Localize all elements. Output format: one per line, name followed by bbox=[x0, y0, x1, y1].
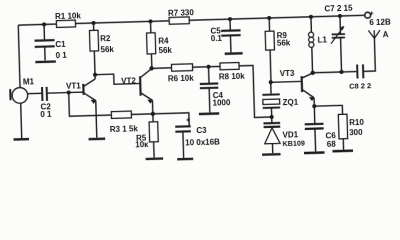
svg-text:R8 10k: R8 10k bbox=[219, 72, 246, 82]
svg-text:1000: 1000 bbox=[212, 98, 231, 108]
transistor VT1 bbox=[82, 84, 85, 95]
wire C5 top lead bbox=[229, 19, 231, 30]
capacitor C8 bbox=[356, 65, 358, 79]
svg-text:R4: R4 bbox=[158, 36, 169, 45]
svg-text:56k: 56k bbox=[100, 45, 114, 54]
svg-text:R1 10k: R1 10k bbox=[55, 11, 82, 21]
wire R9 top lead bbox=[268, 18, 270, 31]
wire node to ZQ1 bbox=[270, 82, 272, 93]
svg-text:56k: 56k bbox=[277, 39, 291, 48]
ground under C4 bbox=[199, 112, 219, 115]
resistor R1 bbox=[56, 20, 75, 27]
wire tank node to C8 bbox=[342, 71, 357, 73]
wire VT3 emitter down to node bbox=[313, 98, 315, 106]
wire node to C3 corner bbox=[153, 113, 189, 128]
wire R9 bottom to base node bbox=[269, 50, 272, 82]
wire R8 right corner down to varicap node row bbox=[239, 65, 272, 118]
svg-text:KB109: KB109 bbox=[282, 138, 305, 148]
svg-text:C1: C1 bbox=[55, 40, 66, 49]
capacitor C1 bbox=[35, 39, 55, 42]
wire top rail R7 to terminal bbox=[189, 15, 365, 20]
svg-text:R2: R2 bbox=[100, 34, 111, 43]
resistor R10 bbox=[338, 114, 347, 139]
wire M1 to C2 bbox=[27, 92, 42, 94]
svg-text:6 12В: 6 12В bbox=[369, 18, 391, 28]
wire C1 to ground bbox=[44, 47, 46, 61]
wire base node down to R3 row bbox=[69, 91, 112, 116]
wire VT2 emitter down to node bbox=[151, 100, 153, 113]
terminal +6..12V bbox=[365, 12, 371, 18]
wire ZQ1 to node bbox=[270, 108, 272, 117]
ground under R5 bbox=[146, 157, 163, 160]
svg-text:0.1: 0.1 bbox=[211, 34, 223, 43]
resistor R9 bbox=[265, 31, 274, 50]
wire R10 to ground bbox=[342, 139, 344, 150]
capacitor C4 bbox=[200, 82, 218, 85]
svg-text:+: + bbox=[186, 117, 190, 124]
wire VT3 emitter node to R10 bbox=[314, 105, 342, 115]
svg-text:R3 1 5k: R3 1 5k bbox=[110, 124, 139, 134]
wire VT1 emitter to ground bbox=[96, 101, 97, 138]
wire L1 bottom to VT3 collector node bbox=[311, 47, 314, 72]
ground under VT1 bbox=[89, 137, 106, 140]
svg-text:10 0х16В: 10 0х16В bbox=[185, 137, 220, 147]
svg-text:VT2: VT2 bbox=[121, 76, 136, 85]
resistor R5 bbox=[149, 122, 158, 142]
wire R6 to R8 node bbox=[193, 65, 220, 68]
wire left vertical from rail to M1 bbox=[18, 25, 20, 88]
wire M1 bottom to ground bbox=[20, 103, 23, 138]
svg-text:M1: M1 bbox=[23, 77, 35, 86]
wire C7 top lead bbox=[339, 16, 342, 34]
svg-text:C7 2 15: C7 2 15 bbox=[324, 3, 353, 13]
wire node down to VD1 bbox=[271, 117, 273, 123]
svg-text:10к: 10к bbox=[135, 140, 149, 149]
capacitor C2 bbox=[41, 87, 43, 101]
wire top rail R1 to R7 bbox=[75, 21, 169, 24]
resistor R7 bbox=[169, 17, 189, 24]
svg-text:C8 2 2: C8 2 2 bbox=[349, 81, 371, 91]
svg-text:+: + bbox=[370, 11, 374, 18]
svg-text:300: 300 bbox=[349, 128, 363, 137]
svg-text:0 1: 0 1 bbox=[40, 110, 52, 119]
transistor VT3 bbox=[301, 76, 304, 92]
svg-text:VT1: VT1 bbox=[66, 81, 81, 90]
svg-text:0 1: 0 1 bbox=[56, 51, 68, 60]
wire R3 to VT2 emitter node bbox=[131, 113, 152, 116]
wire R4 top lead bbox=[150, 21, 152, 32]
wire R5 to ground bbox=[153, 142, 155, 158]
capacitor C5 bbox=[221, 29, 240, 32]
resistor R3 bbox=[111, 111, 131, 118]
wire L1 top lead bbox=[310, 17, 312, 32]
svg-text:R7 330: R7 330 bbox=[168, 8, 195, 18]
ground under R10 bbox=[332, 149, 352, 152]
varicap VD1 bbox=[263, 122, 280, 125]
wire R2 top lead bbox=[93, 23, 95, 30]
ground under M1 bbox=[14, 138, 29, 141]
svg-text:68: 68 bbox=[327, 140, 337, 149]
capacitor C3 bbox=[175, 125, 190, 128]
wire VD1 to ground bbox=[271, 144, 273, 154]
resistor R8 bbox=[220, 62, 239, 69]
resistor R2 bbox=[89, 30, 98, 51]
antenna A bbox=[373, 30, 375, 38]
svg-text:C3: C3 bbox=[196, 126, 207, 135]
variable capacitor C7 bbox=[332, 33, 345, 35]
junction node dots bbox=[42, 22, 46, 26]
wire C7 bottom riser to tank row bbox=[340, 38, 343, 72]
capacitor C6 bbox=[303, 105, 353, 153]
inductor L1 bbox=[308, 32, 313, 37]
wire C8 to antenna riser bbox=[362, 38, 375, 71]
crystal ZQ1 bbox=[262, 93, 279, 95]
svg-text:56k: 56k bbox=[158, 46, 172, 55]
ground under C6 bbox=[304, 151, 324, 154]
wire C4 to ground bbox=[208, 88, 211, 113]
svg-text:VT3: VT3 bbox=[280, 69, 295, 78]
svg-text:R10: R10 bbox=[349, 118, 364, 127]
svg-text:A: A bbox=[383, 30, 389, 39]
wire base node to VT3 bbox=[271, 80, 302, 83]
wire C5 to ground bbox=[229, 35, 231, 52]
wire node to R6 bbox=[152, 67, 172, 70]
ground under C5 bbox=[225, 52, 243, 55]
ground under VD1 bbox=[262, 153, 280, 156]
svg-text:ZQ1: ZQ1 bbox=[282, 98, 298, 107]
ground under C1 bbox=[35, 60, 55, 63]
resistor R6 bbox=[171, 64, 192, 71]
microphone M1 bbox=[12, 87, 28, 103]
wire C3 to ground bbox=[182, 132, 185, 158]
wire R5 top lead bbox=[152, 114, 154, 122]
transistor VT2 bbox=[139, 76, 142, 95]
wire C1 branch lead bbox=[43, 24, 45, 40]
wire C4 top lead bbox=[208, 67, 210, 84]
svg-text:L1: L1 bbox=[318, 36, 328, 45]
wire VT1 collector node to VT2 base jog bbox=[95, 73, 140, 84]
wire top supply rail left segment bbox=[18, 24, 56, 25]
wire R4 bottom to node bbox=[150, 54, 152, 68]
svg-text:R6 10k: R6 10k bbox=[168, 74, 195, 84]
wire tank row collector to C7 riser bbox=[313, 71, 342, 74]
wire R2 bottom to VT1 collector bbox=[93, 51, 96, 79]
wire C2 to VT1 base bbox=[47, 92, 84, 93]
resistor R4 bbox=[147, 33, 156, 54]
ground under C3 bbox=[177, 158, 193, 161]
